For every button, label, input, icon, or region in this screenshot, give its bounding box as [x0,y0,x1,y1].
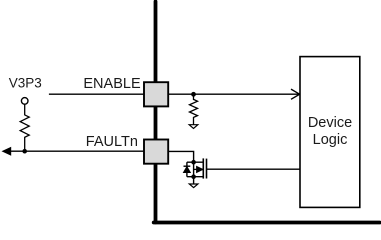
svg-text:Logic: Logic [313,132,348,148]
svg-text:ENABLE: ENABLE [83,76,141,92]
transistor M1 (open-drain NMOS with body diode) [184,158,207,179]
IC boundary horizontal bus line [154,221,380,225]
wire ENABLE external [49,93,144,95]
FAULTn pad [144,140,168,164]
M1 body diode branch vertical [186,162,188,177]
Device Logic block [300,57,360,208]
terminal V3P3 open circle [21,98,28,105]
M1 body diode triangle [184,167,191,173]
M1 source node dot [191,174,196,179]
svg-text:Device: Device [308,115,352,131]
svg-text:V3P3: V3P3 [9,76,42,91]
arrowhead FAULTn filled left [2,147,12,156]
M1 body arrow line [194,168,203,170]
node FAULTn junction [22,149,27,154]
M1 drain node dot [191,160,196,165]
wire M1 source to ground [193,177,195,184]
M1 gate plate [206,159,208,179]
wire M1 gate to Device Logic [207,168,301,170]
M1 body arrow head [197,166,203,172]
M1 drain stub [187,161,203,163]
svg-text:FAULTn: FAULTn [86,134,138,150]
resistor R pulldown on ENABLE [190,94,198,124]
resistor V3P3 pull-up [20,104,29,151]
M1 channel line [202,158,204,178]
wire FAULTn internal to M1 drain [168,151,194,162]
wire ENABLE internal [168,93,300,95]
M1 body diode cathode bar [184,165,191,167]
M1 center vertical (drain-source column) [193,162,195,177]
node ENABLE junction [191,92,196,97]
arrowhead open V into Device Logic (ENABLE) [291,89,300,99]
ENABLE pad [144,82,168,106]
M1 source stub [187,176,203,178]
IC boundary vertical bus line [154,2,158,223]
ground arrow below M1 source [189,184,198,188]
ground arrow below ENABLE pulldown resistor [189,125,198,129]
wire FAULTn external [9,150,144,152]
